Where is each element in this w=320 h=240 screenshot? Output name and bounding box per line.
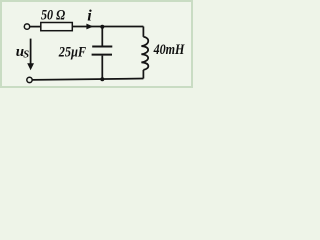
wire capacitor to bottom (101, 56, 103, 80)
bottom wire (32, 79, 143, 80)
svg-text:40mH: 40mH (153, 42, 186, 58)
voltage arrow uS head (27, 63, 34, 70)
svg-text:i: i (87, 8, 92, 25)
voltage arrow uS shaft (30, 39, 32, 64)
junction node top (100, 25, 104, 29)
wire corner down to coil (142, 27, 144, 37)
resistor R 50ohm (41, 23, 73, 31)
terminal top-left (24, 24, 29, 29)
border frame (1, 1, 192, 87)
svg-text:S: S (23, 50, 29, 61)
wire junction to capacitor (101, 27, 103, 46)
wire resistor to corner (72, 26, 143, 28)
arrowhead current i (86, 24, 93, 30)
junction node bottom (100, 77, 104, 81)
svg-text:25μF: 25μF (58, 45, 86, 61)
page background (0, 0, 193, 88)
wire coil to bottom (142, 70, 144, 79)
capacitor C 25uF bottom plate (92, 54, 112, 56)
wire terminal to resistor (30, 26, 41, 28)
inductor L 40mH coil (141, 37, 148, 70)
capacitor C 25uF top plate (92, 46, 112, 48)
terminal bottom-left (27, 77, 32, 82)
svg-text:50 Ω: 50 Ω (41, 8, 65, 24)
